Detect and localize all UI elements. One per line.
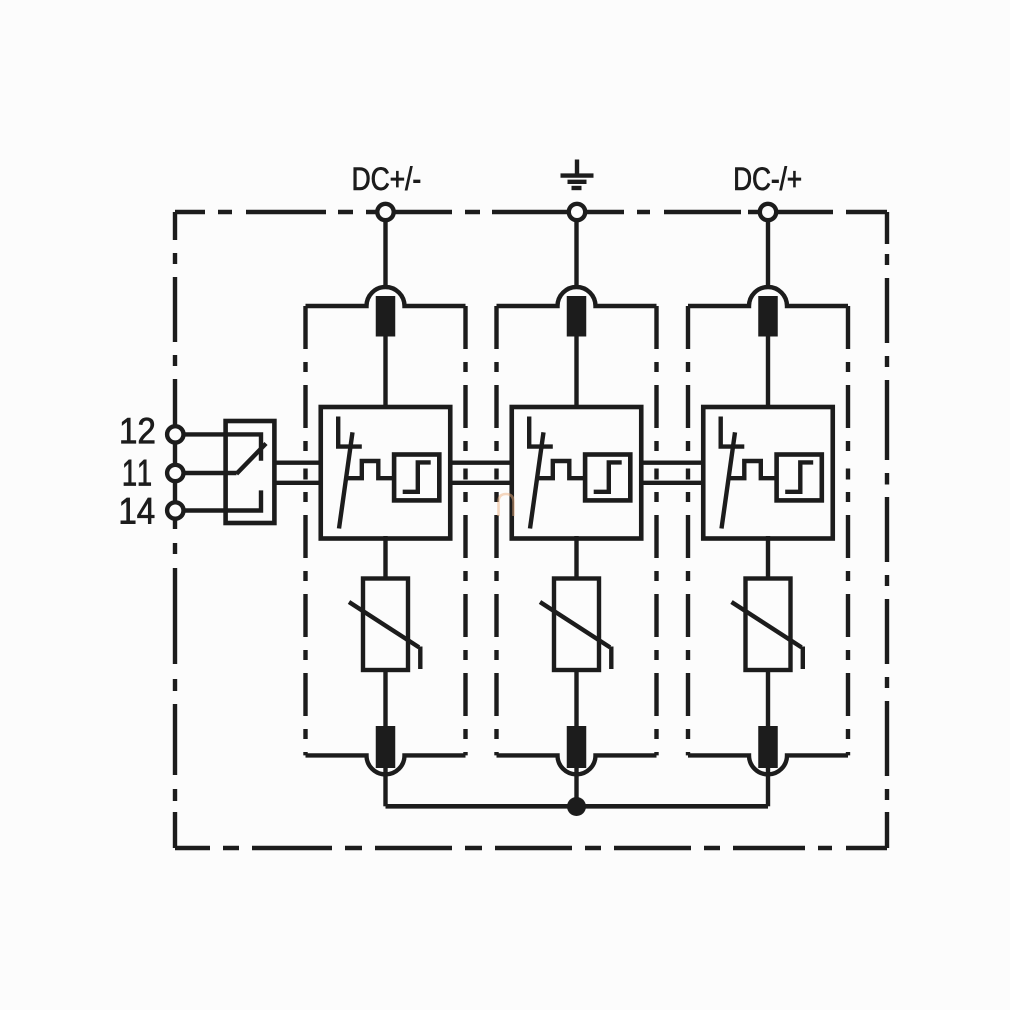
terminal PE (earth) xyxy=(569,204,585,220)
wire: terminal 11 lead xyxy=(175,471,236,475)
wire: branch 1 box bottom edge with arc of lower disconnector xyxy=(306,755,466,774)
thermal disconnector (upper) branch 2: filled bar xyxy=(567,296,587,337)
pin label 14 xyxy=(121,498,154,524)
varistor RV3 xyxy=(732,579,803,671)
wire: varistor to lower disconnector, branch 3 xyxy=(766,668,770,728)
thermal disconnector (lower) branch 1: filled bar xyxy=(376,726,396,768)
terminal 11 xyxy=(167,465,183,481)
spark gap arrester box F1 xyxy=(321,407,451,539)
terminal DC+/- xyxy=(377,204,393,220)
thermal disconnector (lower) branch 2: filled bar xyxy=(567,726,587,768)
wire: spark gap box to varistor, branch 2 xyxy=(574,536,578,580)
wire: spark gap box to varistor, branch 1 xyxy=(383,536,387,580)
wire: upper monitoring bus line xyxy=(274,461,703,465)
wire: upper disconnector to spark gap box, branch 1 xyxy=(383,334,387,409)
wire: branch 2 box top edge with arc of thermal disconnector xyxy=(497,287,657,306)
varistor RV2 xyxy=(540,579,611,671)
wire: terminal 12 lead xyxy=(175,434,261,460)
wire: terminal 14 lead xyxy=(175,490,261,510)
wire: enclosure left border (dash-dot) xyxy=(173,212,177,848)
decorative faint arc artifact xyxy=(499,494,514,516)
wire: terminal to upper disconnector, branch 1 xyxy=(383,212,387,288)
spark gap arrester box F2 xyxy=(512,407,642,539)
spark gap arrester box F3 xyxy=(703,407,833,539)
wire: upper disconnector to spark gap box, branch 2 xyxy=(574,334,578,409)
switch blade of changeover contact xyxy=(237,444,267,474)
wire: branch 3 dashed box left side xyxy=(686,306,690,755)
remote signalling changeover contact box xyxy=(226,421,275,523)
wire: upper disconnector to spark gap box, branch 3 xyxy=(766,334,770,409)
varistor RV1 xyxy=(349,579,420,671)
terminal DC-/+ xyxy=(760,204,776,220)
wire: terminal to upper disconnector, branch 2 xyxy=(574,212,578,288)
terminal 14 xyxy=(167,502,183,518)
label DC+/- xyxy=(354,166,420,190)
wire: varistor to lower disconnector, branch 2 xyxy=(574,668,578,728)
wire: branch 2 dashed box left side xyxy=(494,306,498,755)
label DC-/+ xyxy=(735,166,800,190)
node: bottom bus junction dot xyxy=(567,797,586,816)
wire: enclosure top border (dash-dot) xyxy=(175,210,887,214)
wire: branch 3 box top edge with arc of thermal disconnector xyxy=(688,287,848,306)
wire: branch 2 box bottom edge with arc of lower disconnector xyxy=(497,755,657,774)
thermal disconnector (upper) branch 3: filled bar xyxy=(758,296,778,337)
ground symbol above PE terminal xyxy=(561,160,594,189)
wire: branch 1 dashed box right side xyxy=(463,306,467,755)
wire: enclosure bottom border (dash-dot) xyxy=(175,846,887,850)
wire: common bottom bus joining three branches xyxy=(386,804,769,809)
thermal disconnector (upper) branch 1: filled bar xyxy=(376,296,396,337)
wire: spark gap box to varistor, branch 3 xyxy=(766,536,770,580)
wire: lower disconnector to common bus, branch 2 xyxy=(574,766,578,806)
wire: branch 2 dashed box right side xyxy=(654,306,658,755)
wire: enclosure right border (dash-dot) xyxy=(885,212,889,848)
wire: branch 1 dashed box left side xyxy=(303,306,307,755)
thermal disconnector (lower) branch 3: filled bar xyxy=(758,726,778,768)
terminal 12 xyxy=(167,426,183,442)
pin label 12 xyxy=(122,418,155,444)
wire: lower monitoring bus line xyxy=(274,481,703,485)
wire: branch 1 box top edge with arc of thermal disconnector xyxy=(306,287,466,306)
wire: lower disconnector to common bus, branch 3 xyxy=(766,766,770,806)
pin label 11 xyxy=(124,460,151,486)
wire: lower disconnector to common bus, branch 1 xyxy=(383,766,387,806)
wire: branch 3 box bottom edge with arc of lower disconnector xyxy=(688,755,848,774)
wire: branch 3 dashed box right side xyxy=(846,306,850,755)
wire: terminal to upper disconnector, branch 3 xyxy=(766,212,770,288)
wire: varistor to lower disconnector, branch 1 xyxy=(383,668,387,728)
